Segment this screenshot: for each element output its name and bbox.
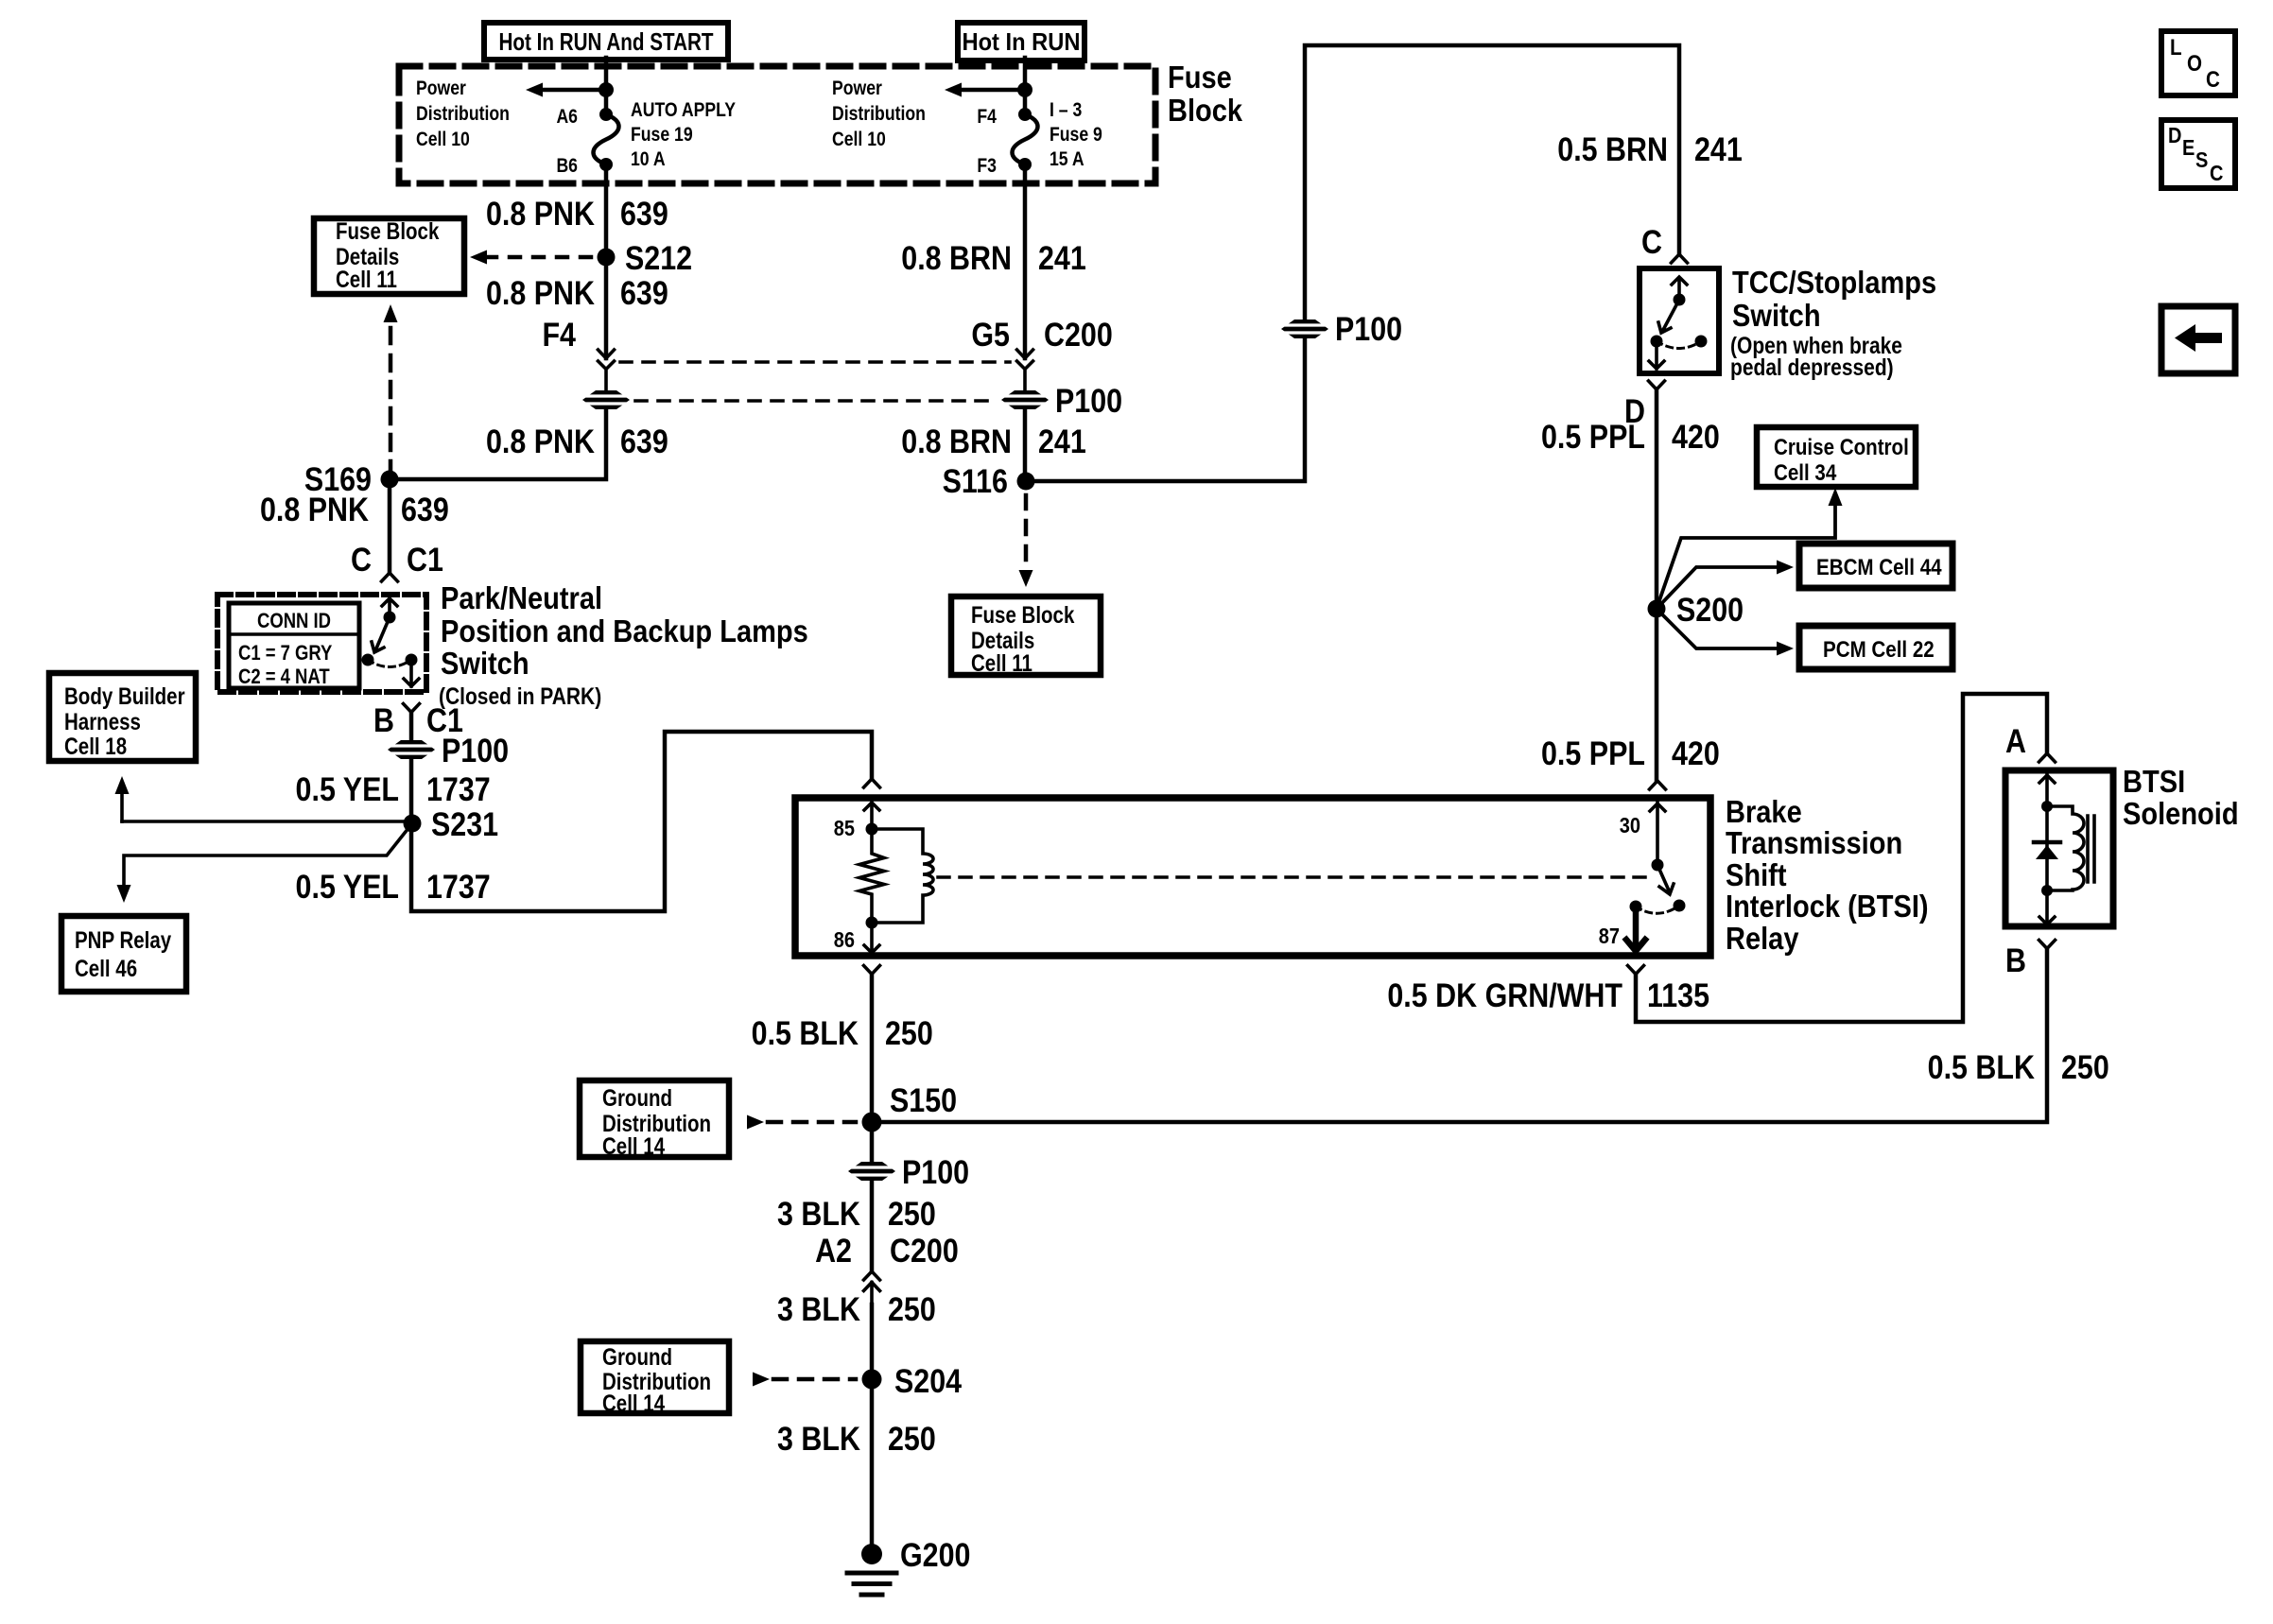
connector half C1 at Park/Neutral switch (chevron) <box>382 573 398 581</box>
svg-text:0.5 PPL: 0.5 PPL <box>1541 734 1645 771</box>
wire: 0.8 BRN 241 below P100 to S116 <box>1023 409 1028 481</box>
P/N switch: dashed travel arc <box>368 660 411 667</box>
splice node S150 <box>862 1113 882 1132</box>
arrow head up into Fuse Block Details box <box>384 304 398 322</box>
net label box: Hot In RUN <box>958 23 1084 60</box>
wire label: 0.8 PNK 639 (below S212) <box>486 274 668 311</box>
splice node S204 <box>862 1370 882 1390</box>
pin B6 terminal dot <box>599 158 613 171</box>
svg-text:Brake: Brake <box>1726 794 1802 829</box>
svg-text:Fuse 19: Fuse 19 <box>631 124 693 147</box>
svg-text:639: 639 <box>620 423 668 459</box>
relay switch left contact dot (pin 87) <box>1630 901 1642 913</box>
svg-text:241: 241 <box>1038 423 1086 459</box>
splice node S116 <box>1017 473 1035 491</box>
ground G200 terminal dot <box>861 1544 882 1564</box>
svg-text:639: 639 <box>620 195 668 232</box>
wire: 0.8 PNK 639 below P100 down to S169 corner <box>390 409 606 573</box>
svg-text:420: 420 <box>1672 418 1720 455</box>
svg-text:S200: S200 <box>1676 591 1744 628</box>
reference box: Ground Distribution Cell 14 (lower) <box>581 1341 729 1416</box>
wire: 3 BLK 250 from S150 down to P100 <box>870 1122 875 1162</box>
svg-text:1737: 1737 <box>426 770 491 807</box>
connector half below relay pin 87 <box>1628 966 1644 975</box>
svg-text:L: L <box>2170 34 2182 60</box>
wire: S116 right, up and across top to TCC switch <box>1026 45 1679 481</box>
svg-text:Cell 34: Cell 34 <box>1774 459 1837 485</box>
wire: 0.5 PPL 420 from TCC D down through S200 to relay pin 30 <box>1655 389 1659 781</box>
relay pin 30 internal line <box>1650 798 1665 865</box>
connector half at BTSI solenoid pin B <box>2039 941 2056 949</box>
dashed reference wire to S150 <box>768 1120 856 1125</box>
label: I-3 Fuse 9 15 A <box>1050 99 1102 171</box>
wire: power distribution branch (left arrow) <box>542 88 606 93</box>
wire label: 0.5 YEL 1737 (lower) <box>296 868 491 905</box>
svg-text:G5: G5 <box>971 316 1010 353</box>
svg-text:639: 639 <box>620 274 668 311</box>
relay switch right contact dot <box>1674 900 1686 912</box>
wire: power distribution branch right side <box>961 88 1025 93</box>
wire: S200 branch to Cruise Control <box>1657 502 1835 609</box>
svg-text:S150: S150 <box>890 1081 957 1118</box>
svg-text:639: 639 <box>401 491 449 527</box>
svg-text:E: E <box>2182 135 2195 161</box>
wire: arrow stem to Body Builder Harness <box>120 792 124 821</box>
svg-text:30: 30 <box>1620 813 1640 838</box>
svg-text:Switch: Switch <box>441 646 529 681</box>
svg-text:P100: P100 <box>1055 382 1122 419</box>
P/N switch: left contact dot <box>362 654 374 666</box>
BTSI solenoid box <box>2005 770 2113 926</box>
wire label: 0.8 PNK 639 (below P100) <box>486 423 668 459</box>
margin key box: back arrow <box>2161 306 2235 373</box>
connector half F4 mate (Y) <box>599 361 615 390</box>
svg-text:C1: C1 <box>407 541 443 578</box>
splice node S169 <box>381 471 399 489</box>
svg-text:CONN ID: CONN ID <box>257 611 331 633</box>
ground symbol G200 <box>847 1573 896 1595</box>
dashed connector mating line F4-G5 <box>620 360 1010 364</box>
label: terminal B / connector C1 <box>373 701 463 738</box>
svg-text:15 A: 15 A <box>1050 148 1084 171</box>
svg-text:0.5 BLK: 0.5 BLK <box>752 1014 859 1051</box>
svg-text:250: 250 <box>2061 1048 2109 1085</box>
wire: 0.5 BLK 250 from relay 86 down to S150 <box>870 975 875 1123</box>
connector half below relay pin 86 <box>864 966 880 975</box>
arrow head down into PNP Relay box <box>117 885 131 903</box>
connector half G5 mate (Y) <box>1017 361 1033 390</box>
relay coil bottom node dot <box>866 917 878 929</box>
arrow head from Ground Distribution box (right) <box>747 1115 764 1130</box>
connector half G5 (wire end chevron) <box>1017 350 1033 358</box>
wire: 3 BLK 250 from P100 down to connector C200 <box>870 1181 875 1271</box>
svg-text:Hot In RUN And START: Hot In RUN And START <box>498 28 713 56</box>
svg-text:O: O <box>2187 50 2202 76</box>
relay coil (winding) <box>872 829 933 923</box>
TCC switch: left contact dot (to D) <box>1651 336 1663 348</box>
svg-text:0.5 YEL: 0.5 YEL <box>296 770 399 807</box>
svg-text:C: C <box>2206 66 2220 92</box>
CONN ID table box <box>229 603 359 688</box>
TCC switch: fixed contact arrow to C <box>1672 277 1687 300</box>
relay pin 86 internal arrow <box>864 923 879 953</box>
dashed mating line P100 pair <box>635 399 998 403</box>
P/N switch: pivot dot <box>384 612 396 624</box>
svg-text:BTSI: BTSI <box>2123 764 2185 799</box>
svg-text:250: 250 <box>888 1195 936 1232</box>
wire label: 3 BLK 250 (above G200) <box>777 1420 936 1457</box>
svg-text:Distribution: Distribution <box>416 103 510 126</box>
connector half C at TCC switch <box>1672 254 1688 263</box>
svg-text:PNP Relay: PNP Relay <box>75 926 171 953</box>
wire label: 0.8 BRN 241 (below P100) <box>901 423 1086 459</box>
fuse block dashed boundary <box>399 66 1155 183</box>
svg-text:Transmission: Transmission <box>1726 825 1902 860</box>
svg-text:Cruise Control: Cruise Control <box>1774 434 1909 459</box>
svg-text:Cell 11: Cell 11 <box>336 266 397 292</box>
svg-text:Ground: Ground <box>602 1084 672 1111</box>
wire: 0.5 DK GRN/WHT 1135 from relay 87 to BTSI solenoid A <box>1636 694 2047 1022</box>
svg-text:Distribution: Distribution <box>832 103 926 126</box>
arrow head down into Fuse Block Details box (right) <box>1019 570 1033 587</box>
svg-text:3 BLK: 3 BLK <box>777 1290 860 1327</box>
svg-text:I – 3: I – 3 <box>1050 99 1082 122</box>
label: Park/Neutral Position and Backup Lamps Switch <box>439 580 808 709</box>
wire: B down to P100 <box>409 713 414 741</box>
label: AUTO APPLY Fuse 19 10 A <box>631 99 736 171</box>
svg-text:F4: F4 <box>542 316 576 353</box>
fuse F9 element (S-curve) <box>1013 114 1038 164</box>
arrow to Power Distribution (solid head, right fuse) <box>945 83 962 97</box>
svg-text:241: 241 <box>1694 130 1743 167</box>
arrow head up into Cruise Control box <box>1829 488 1843 506</box>
svg-text:C: C <box>1641 223 1662 260</box>
label: Brake Transmission Shift Interlock (BTSI) Relay <box>1726 794 1929 956</box>
relay pin 87 internal arrow (bold) <box>1626 907 1645 951</box>
wire label: 3 BLK 250 (above S204) <box>777 1290 936 1327</box>
connector half D below TCC switch <box>1649 381 1665 389</box>
connector half F4 (wire end chevron) <box>599 350 615 358</box>
wire: 0.5 YEL 1737 from P100 down through S231, right and up to relay 85 <box>411 732 872 911</box>
wire label: 0.5 PPL 420 (lower) <box>1541 734 1720 771</box>
svg-text:0.5 YEL: 0.5 YEL <box>296 868 399 905</box>
reference box: Cruise Control Cell 34 <box>1757 427 1916 487</box>
relay switch pivot dot <box>1652 859 1664 872</box>
solenoid coil winding <box>2047 806 2084 890</box>
TCC switch: pivot dot <box>1674 294 1686 306</box>
svg-text:Power: Power <box>416 78 466 100</box>
svg-text:3 BLK: 3 BLK <box>777 1420 860 1457</box>
svg-text:C200: C200 <box>1044 316 1113 353</box>
svg-text:Position and Backup Lamps: Position and Backup Lamps <box>441 613 808 648</box>
svg-text:0.8 BRN: 0.8 BRN <box>901 239 1012 276</box>
svg-text:A2: A2 <box>815 1232 852 1269</box>
connector half B below P/N switch <box>404 704 420 713</box>
svg-text:PCM Cell 22: PCM Cell 22 <box>1823 636 1935 662</box>
wire label: 0.8 PNK 639 (below S169) <box>260 491 449 527</box>
solenoid core bars <box>2088 816 2094 882</box>
svg-text:TCC/Stoplamps: TCC/Stoplamps <box>1732 265 1936 300</box>
arrow head to Fuse Block Details (left) <box>470 251 487 265</box>
wire label: 0.5 YEL 1737 (upper) <box>296 770 491 807</box>
svg-text:87: 87 <box>1599 924 1620 949</box>
svg-text:AUTO APPLY: AUTO APPLY <box>631 99 736 122</box>
label: terminal G5 / connector C200 <box>971 316 1112 353</box>
svg-text:B: B <box>373 701 394 738</box>
wire: Hot In RUN feed down into fuse block <box>1023 58 1028 114</box>
svg-text:1737: 1737 <box>426 868 491 905</box>
svg-text:Relay: Relay <box>1726 921 1799 956</box>
dashed reference wire from S116 down to Fuse Block Details <box>1024 495 1029 567</box>
arrow head right into PCM box <box>1777 642 1794 656</box>
label: Power Distribution Cell 10 (right) <box>832 78 926 151</box>
arrow head from lower Ground Distribution box <box>753 1373 770 1387</box>
svg-text:0.5 BLK: 0.5 BLK <box>1928 1048 2036 1085</box>
svg-text:S204: S204 <box>894 1362 963 1399</box>
net label box: Hot In RUN And START <box>484 23 728 60</box>
solenoid pin A internal arrow <box>2039 770 2055 806</box>
solenoid pin B internal arrow <box>2039 890 2055 924</box>
splice node S200 <box>1648 600 1666 618</box>
svg-text:0.8 PNK: 0.8 PNK <box>486 195 595 232</box>
connector half at BTSI solenoid pin A <box>2039 753 2056 762</box>
svg-text:B6: B6 <box>556 155 578 178</box>
svg-text:Fuse: Fuse <box>1168 60 1232 95</box>
svg-text:S231: S231 <box>431 805 498 842</box>
svg-text:0.8 BRN: 0.8 BRN <box>901 423 1012 459</box>
svg-text:A6: A6 <box>556 106 578 129</box>
in-line connector P100 (B C1 wire) <box>388 740 435 759</box>
svg-text:Cell 46: Cell 46 <box>75 955 137 981</box>
svg-text:Hot In RUN: Hot In RUN <box>962 29 1080 56</box>
dashed reference wire to S204 <box>773 1377 856 1382</box>
svg-text:A: A <box>2005 722 2026 759</box>
splice node S231 <box>404 815 422 833</box>
svg-text:86: 86 <box>834 927 855 953</box>
svg-text:Cell 18: Cell 18 <box>64 733 127 759</box>
svg-text:C2 = 4 NAT: C2 = 4 NAT <box>238 666 330 689</box>
svg-text:Fuse 9: Fuse 9 <box>1050 124 1102 147</box>
wire: S231 branch to PNP Relay <box>124 823 412 886</box>
BTSI relay box <box>795 798 1710 956</box>
svg-text:Ground: Ground <box>602 1343 672 1370</box>
svg-text:241: 241 <box>1038 239 1086 276</box>
svg-text:1135: 1135 <box>1647 976 1709 1013</box>
svg-text:Body Builder: Body Builder <box>64 682 185 709</box>
wire label: 0.5 DK GRN/WHT 1135 <box>1387 976 1709 1013</box>
svg-text:B: B <box>2005 942 2026 978</box>
relay pin 85 internal arrow <box>864 798 879 829</box>
in-line connector P100 (ground lead grommet) <box>848 1162 895 1181</box>
label: Fuse Block (right of dashed box) <box>1168 60 1243 128</box>
diode bar (cathode) <box>2034 840 2060 845</box>
wire: 3 BLK 250 from C200 down through S204 to G200 <box>870 1304 875 1554</box>
svg-text:P100: P100 <box>1335 310 1402 347</box>
margin key box: LOC <box>2161 31 2235 95</box>
svg-text:Block: Block <box>1168 93 1243 128</box>
svg-text:F3: F3 <box>977 155 997 178</box>
diode triangle (anode, pointing up) <box>2036 845 2058 859</box>
junction dot on feed at arrow <box>599 82 614 97</box>
wire label: 0.5 PPL 420 (upper) <box>1541 418 1720 455</box>
svg-text:P100: P100 <box>442 732 509 769</box>
Park/Neutral switch dashed outline <box>217 595 426 692</box>
wire: Hot In RUN And START feed down into fuse block <box>604 58 609 114</box>
resistor (relay internal, parallel with coil) <box>859 829 884 923</box>
svg-text:Fuse Block: Fuse Block <box>336 217 440 244</box>
wire label: 0.8 PNK 639 (above S212) <box>486 195 668 232</box>
svg-text:420: 420 <box>1672 734 1720 771</box>
label: terminal C / connector C1 <box>351 541 443 578</box>
svg-text:Shift: Shift <box>1726 857 1787 892</box>
reference box: EBCM Cell 44 <box>1799 544 1952 588</box>
svg-text:3 BLK: 3 BLK <box>777 1195 860 1232</box>
svg-text:F4: F4 <box>977 106 997 129</box>
svg-text:Cell 11: Cell 11 <box>971 649 1032 676</box>
in-line connector P100 (right grommet) <box>1001 390 1049 409</box>
svg-text:250: 250 <box>888 1420 936 1457</box>
connector half at relay pin 85 <box>864 779 880 787</box>
svg-text:0.8 PNK: 0.8 PNK <box>260 491 369 527</box>
in-line connector P100 (on TCC feed wire) <box>1281 320 1328 338</box>
wire: 0.8 BRN 241 from fuse F3 down to connector G5 <box>1023 164 1028 358</box>
svg-text:S: S <box>2195 147 2208 173</box>
wire: 0.5 BLK 250 from solenoid B down to S150 run <box>872 949 2047 1123</box>
svg-text:Cell 10: Cell 10 <box>416 129 470 151</box>
P/N switch: fixed contact arrow to C1 <box>382 598 397 617</box>
svg-text:pedal depressed): pedal depressed) <box>1730 354 1894 380</box>
TCC switch: dashed travel arc <box>1657 341 1701 349</box>
svg-text:D: D <box>2168 123 2181 148</box>
dashed reference wire from S169 wire up to Fuse Block Details box <box>389 321 393 470</box>
solenoid top node dot <box>2041 801 2053 812</box>
wire: S200 branch to PCM <box>1657 609 1777 648</box>
dashed actuation link from coil to relay switch <box>938 875 1645 879</box>
wire label: 0.5 BLK 250 (solenoid side) <box>1928 1048 2109 1085</box>
svg-text:250: 250 <box>888 1290 936 1327</box>
pin F4 terminal dot (fuse block) <box>1018 108 1032 121</box>
P/N switch: movable arm with arrowhead <box>372 617 390 652</box>
connector half A2 (wire end chevron) <box>864 1271 880 1280</box>
relay switch dashed travel arc <box>1636 906 1679 913</box>
splice node S212 <box>598 249 616 267</box>
fuse F19 element (S-curve) <box>594 114 619 164</box>
P/N switch: right contact dot (to B) <box>406 654 418 666</box>
svg-text:0.8 PNK: 0.8 PNK <box>486 274 595 311</box>
TCC switch: right contact dot (open position) <box>1695 336 1708 348</box>
svg-text:0.5 PPL: 0.5 PPL <box>1541 418 1645 455</box>
P/N switch: exit arrow to B <box>404 660 419 686</box>
dashed reference wire from S212 to Fuse Block Details <box>486 255 593 260</box>
svg-text:C: C <box>2210 161 2223 186</box>
connector half C200 mate <box>864 1283 880 1305</box>
svg-text:Fuse Block: Fuse Block <box>971 601 1075 628</box>
reference box: Ground Distribution Cell 14 (upper) <box>580 1080 729 1159</box>
in-line connector P100 (left, pass-through grommet) <box>582 390 630 409</box>
svg-text:Cell 14: Cell 14 <box>602 1132 665 1159</box>
svg-text:Park/Neutral: Park/Neutral <box>441 580 602 615</box>
svg-text:0.8 PNK: 0.8 PNK <box>486 423 595 459</box>
relay switch movable arm with arrowhead <box>1657 865 1674 894</box>
reference box: PCM Cell 22 <box>1799 626 1952 669</box>
svg-text:EBCM Cell 44: EBCM Cell 44 <box>1816 554 1942 579</box>
svg-text:0.5 BRN: 0.5 BRN <box>1557 130 1668 167</box>
wire: S231 branch to Body Builder Harness <box>122 820 412 823</box>
svg-text:0.5 DK GRN/WHT: 0.5 DK GRN/WHT <box>1387 976 1622 1013</box>
arrow to Power Distribution Cell 10 (solid head) <box>526 83 543 97</box>
svg-text:Harness: Harness <box>64 708 141 734</box>
connector half at relay pin 30 <box>1650 781 1666 789</box>
svg-text:Power: Power <box>832 78 882 100</box>
svg-text:G200: G200 <box>900 1536 970 1573</box>
label: terminal A2 / connector C200 <box>815 1232 959 1269</box>
svg-text:C200: C200 <box>890 1232 959 1269</box>
wire: S200 branch to EBCM <box>1657 567 1777 609</box>
svg-text:P100: P100 <box>902 1153 969 1190</box>
svg-text:10 A: 10 A <box>631 148 666 171</box>
svg-text:Interlock (BTSI): Interlock (BTSI) <box>1726 889 1929 924</box>
svg-text:250: 250 <box>885 1014 933 1051</box>
wire: 0.8 PNK 639 from fuse B6 down to connector F4 <box>604 164 609 358</box>
reference box: PNP Relay Cell 46 <box>61 916 186 992</box>
junction dot right feed <box>1017 82 1032 97</box>
TCC switch: movable arm with arrowhead <box>1658 300 1679 333</box>
label: Power Distribution Cell 10 (left) <box>416 78 510 151</box>
svg-text:Cell 14: Cell 14 <box>602 1390 665 1416</box>
margin key box: DESC <box>2161 120 2235 188</box>
relay coil top node dot <box>866 823 878 836</box>
label: BTSI Solenoid <box>2123 764 2239 831</box>
svg-text:Switch: Switch <box>1732 298 1821 333</box>
arrow head right into EBCM box <box>1777 561 1794 575</box>
reference box: Body Builder Harness Cell 18 <box>49 673 196 761</box>
reference box: Fuse Block Details Cell 11 (left) <box>314 217 464 294</box>
svg-text:Solenoid: Solenoid <box>2123 796 2239 831</box>
wire label: 0.5 BRN 241 (top right) <box>1557 130 1743 167</box>
solenoid internal line with clamp diode <box>2045 806 2049 890</box>
svg-text:S116: S116 <box>943 462 1008 499</box>
arrow head up into Body Builder Harness box <box>115 776 130 794</box>
wire label: 3 BLK 250 (above C200) <box>777 1195 936 1232</box>
label: TCC/Stoplamps Switch <box>1730 265 1936 380</box>
pin F3 terminal dot <box>1018 158 1032 171</box>
TCC/Stoplamps switch box <box>1640 268 1719 373</box>
reference box: Fuse Block Details Cell 11 (right) <box>951 596 1101 676</box>
wire label: 0.5 BLK 250 (relay side) <box>752 1014 933 1051</box>
svg-text:85: 85 <box>834 816 855 841</box>
wire label: 0.8 BRN 241 (upper) <box>901 239 1086 276</box>
TCC switch: exit arrow to D <box>1649 341 1664 369</box>
solenoid bottom node dot <box>2041 885 2053 896</box>
pin A6 terminal dot <box>599 108 613 121</box>
svg-text:Cell 10: Cell 10 <box>832 129 886 151</box>
svg-text:S212: S212 <box>625 239 692 276</box>
svg-text:C: C <box>351 541 372 578</box>
svg-text:C1 = 7 GRY: C1 = 7 GRY <box>238 643 333 665</box>
